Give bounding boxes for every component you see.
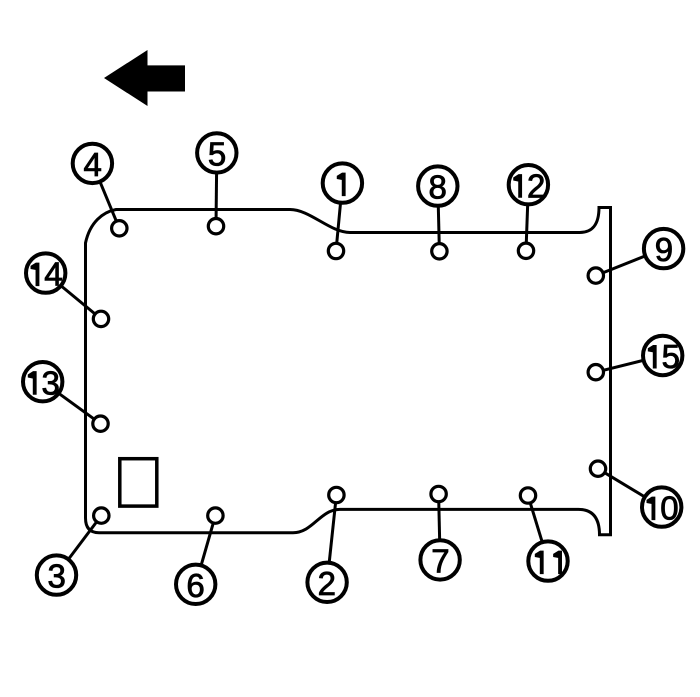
- leader line 8: [438, 186, 440, 251]
- bolt hole 3: [94, 508, 109, 523]
- bolt hole 9: [588, 268, 603, 283]
- bolt hole 15: [588, 365, 603, 380]
- leader line 1: [336, 183, 342, 251]
- callout 6: [176, 565, 215, 604]
- oil pan gasket outline: [86, 208, 611, 535]
- svg-text:2: 2: [527, 167, 545, 204]
- callout 7: [420, 540, 459, 579]
- callout 13: [23, 362, 62, 401]
- callout 10: [642, 487, 681, 526]
- svg-text:4: 4: [44, 256, 62, 293]
- leader line 14: [46, 273, 101, 319]
- leader line 2: [327, 495, 336, 582]
- callout 15: [643, 336, 682, 375]
- callout 5: [197, 133, 236, 172]
- callout 2: [307, 563, 346, 602]
- svg-text:3: 3: [42, 364, 60, 401]
- svg-text:5: 5: [662, 338, 680, 375]
- callout 14: [26, 253, 65, 292]
- callout 3: [37, 555, 76, 594]
- svg-text:3: 3: [48, 558, 66, 595]
- svg-text:5: 5: [208, 136, 226, 173]
- callout 12: [509, 165, 548, 204]
- bolt hole 2: [329, 487, 344, 502]
- svg-text:6: 6: [186, 567, 204, 604]
- callout 9: [644, 229, 683, 268]
- callout 1: [323, 163, 362, 202]
- leader line 3: [57, 516, 102, 576]
- callout 11: [528, 541, 567, 580]
- leader line 11: [528, 496, 548, 562]
- svg-text:7: 7: [431, 543, 449, 580]
- front direction arrow: [104, 50, 185, 106]
- leader line 9: [596, 249, 664, 276]
- bolt hole 5: [208, 219, 223, 234]
- bolt hole 14: [93, 311, 108, 326]
- leader line 13: [43, 382, 101, 424]
- bolt hole 13: [93, 416, 108, 431]
- bolt hole 10: [590, 461, 605, 476]
- callout 8: [418, 166, 457, 205]
- svg-text:4: 4: [83, 146, 101, 183]
- leader line 4: [92, 163, 119, 228]
- leader line 6: [196, 516, 216, 585]
- bolt hole 7: [431, 486, 446, 501]
- callout 4: [73, 144, 112, 183]
- leader line 10: [598, 469, 662, 507]
- bolt hole 8: [432, 244, 447, 259]
- leader line 15: [596, 356, 663, 373]
- svg-text:2: 2: [318, 565, 336, 602]
- svg-text:0: 0: [660, 490, 678, 527]
- bolt hole 12: [518, 243, 533, 258]
- svg-text:8: 8: [428, 169, 446, 206]
- bolt hole 4: [112, 221, 127, 236]
- svg-text:9: 9: [655, 231, 673, 268]
- bolt hole 1: [328, 243, 343, 258]
- bolt hole 6: [208, 508, 223, 523]
- bolt hole 11: [520, 488, 535, 503]
- drain plug rectangle: [120, 459, 157, 506]
- leader line 12: [526, 185, 528, 251]
- leader line 7: [439, 494, 441, 560]
- leader line 5: [215, 153, 219, 226]
